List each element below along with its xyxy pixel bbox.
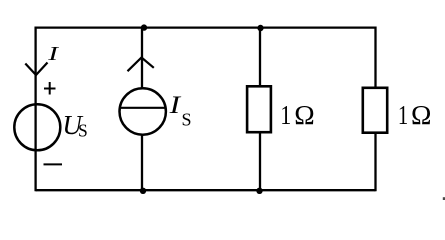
svg-text:Ω: Ω: [294, 99, 314, 130]
voltage source U_S: [14, 104, 60, 150]
svg-text:S: S: [78, 121, 88, 141]
junction dot bottom R1: [256, 188, 262, 194]
current source I_S: [120, 88, 166, 134]
junction dot bottom Is: [140, 188, 146, 194]
svg-text:S: S: [182, 110, 192, 130]
svg-text:1: 1: [280, 101, 291, 131]
wire bottom: [36, 189, 376, 191]
polarity minus: [44, 163, 63, 165]
resistor R1: [247, 86, 271, 132]
resistor R2: [363, 88, 387, 133]
svg-text:1: 1: [398, 100, 408, 131]
current arrow I (chevron down): [25, 63, 47, 76]
svg-text:I: I: [47, 43, 60, 65]
junction dot top Is: [141, 24, 147, 30]
svg-text:I: I: [168, 92, 181, 119]
wire left branch (through voltage source): [34, 27, 36, 192]
polarity plus: [44, 82, 56, 95]
junction dot top R1: [257, 25, 263, 31]
wire branch Is: [141, 28, 143, 191]
current source arrow (chevron up): [128, 58, 154, 72]
stray mark bottom-right corner: [443, 197, 445, 200]
svg-text:Ω: Ω: [411, 99, 431, 130]
wire top: [36, 26, 376, 28]
wire right branch: [374, 27, 376, 192]
wire branch R1: [259, 28, 261, 191]
current source bar: [119, 107, 166, 109]
